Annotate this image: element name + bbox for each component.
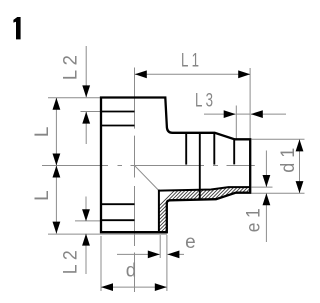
svg-text:L 2: L 2 xyxy=(61,250,82,274)
svg-text:L 2: L 2 xyxy=(61,55,82,80)
svg-text:d: d xyxy=(126,260,137,281)
svg-text:L: L xyxy=(32,127,53,138)
svg-text:L: L xyxy=(32,190,53,201)
svg-text:e: e xyxy=(185,232,196,253)
svg-text:L 3: L 3 xyxy=(195,90,213,111)
svg-text:e 1: e 1 xyxy=(243,208,264,232)
svg-text:L 1: L 1 xyxy=(181,51,199,72)
svg-text:d 1: d 1 xyxy=(278,148,299,173)
